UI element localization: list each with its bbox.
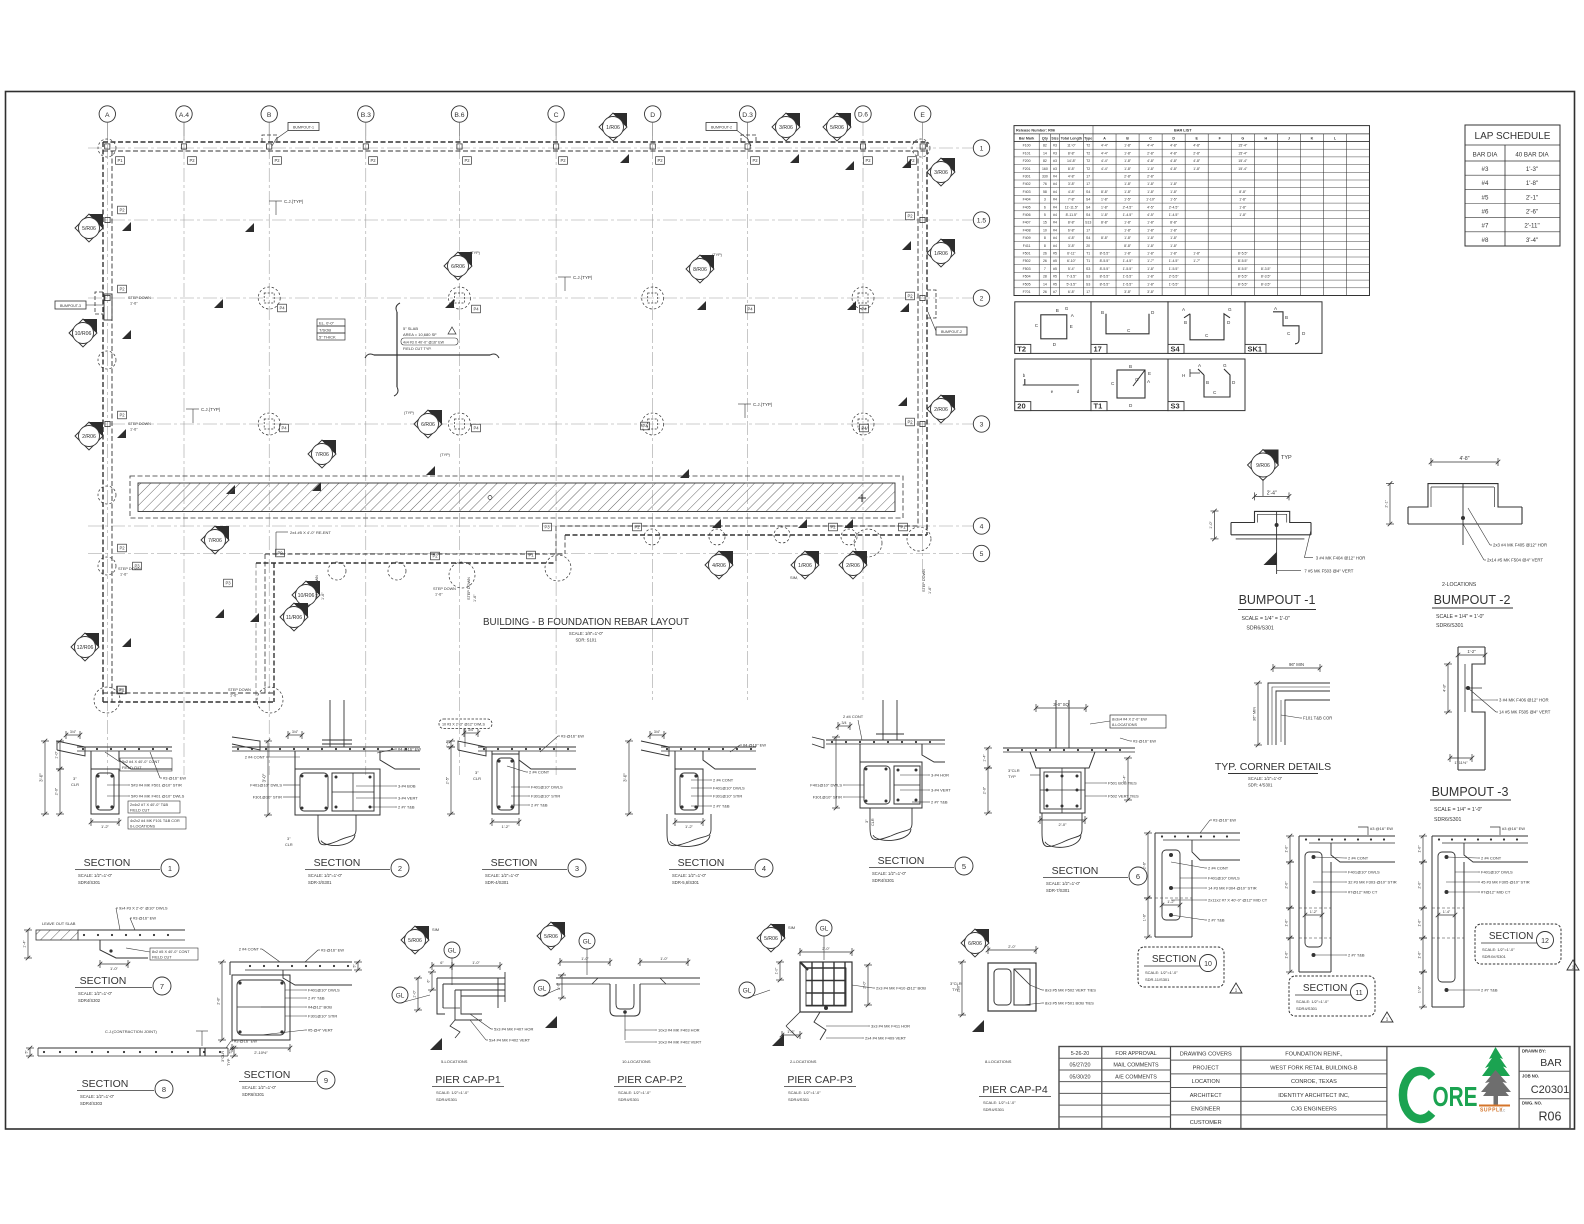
svg-text:8'-8": 8'-8" — [1068, 167, 1076, 171]
bumpout-1 center bar — [1276, 511, 1278, 574]
svg-text:8'-8": 8'-8" — [1068, 151, 1076, 155]
svg-text:36" MIN: 36" MIN — [1252, 707, 1257, 721]
svg-text:F401@10" DWLS: F401@10" DWLS — [531, 785, 563, 790]
svg-text:SCALE: 1/2"=1'-0": SCALE: 1/2"=1'-0" — [872, 871, 907, 876]
svg-text:F505: F505 — [1023, 282, 1031, 286]
svg-text:5#3 #4 MK F501 @10" STIR: 5#3 #4 MK F501 @10" STIR — [131, 783, 182, 788]
svg-text:F301@10" STIR: F301@10" STIR — [253, 795, 282, 800]
section cut flag (900,312) — [900, 303, 909, 312]
svg-text:CLR: CLR — [871, 818, 875, 826]
svg-text:2'-8": 2'-8" — [1124, 175, 1132, 179]
svg-text:5'-3.5": 5'-3.5" — [1066, 282, 1077, 286]
svg-text:#3: #3 — [1053, 151, 1057, 155]
svg-text:P4: P4 — [642, 424, 648, 429]
svg-text:2'-1": 2'-1" — [1385, 499, 1389, 507]
grid line E — [922, 122, 924, 580]
svg-text:1'-0": 1'-0" — [413, 990, 417, 998]
svg-text:G: G — [1135, 377, 1139, 382]
svg-text:#3 @16" EW: #3 @16" EW — [1133, 739, 1156, 744]
svg-text:SDR6/S301: SDR6/S301 — [1436, 623, 1464, 629]
PIER CAP-P1 title — [432, 1074, 504, 1102]
svg-text:2 #7 T&B: 2 #7 T&B — [1348, 953, 1365, 958]
svg-text:B.6: B.6 — [454, 112, 464, 119]
section 8 detail — [25, 1029, 258, 1058]
svg-text:P2: P2 — [274, 158, 280, 163]
svg-text:F401@10" DWLS: F401@10" DWLS — [1481, 870, 1513, 875]
svg-text:P2: P2 — [119, 208, 125, 213]
row bubble 3 — [973, 416, 989, 432]
svg-text:STEP DOWN: STEP DOWN — [922, 569, 926, 592]
svg-text:3 #4 MK F406 @12" HOR: 3 #4 MK F406 @12" HOR — [1499, 698, 1549, 703]
svg-text:ORE: ORE — [1433, 1081, 1478, 1112]
svg-text:B: B — [1206, 380, 1209, 385]
pier label P2 at x=912 — [908, 157, 917, 165]
section marker 5/R06 — [401, 926, 429, 954]
svg-text:330: 330 — [1042, 175, 1048, 179]
svg-text:#3 @16" EW: #3 @16" EW — [321, 948, 344, 953]
section marker 10/R06 — [292, 581, 320, 609]
grid line C — [555, 122, 557, 775]
svg-text:1'-5.5": 1'-5.5" — [1123, 267, 1134, 271]
svg-text:1'-4": 1'-4" — [23, 940, 27, 948]
svg-text:BUMPOUT-2: BUMPOUT-2 — [941, 330, 962, 334]
svg-text:1'-8": 1'-8" — [1170, 190, 1178, 194]
pier label P2 at x=467 — [463, 157, 472, 165]
svg-text:2x4 #4 MK F409 VERT: 2x4 #4 MK F409 VERT — [865, 1036, 907, 1041]
slab area note — [401, 326, 458, 351]
svg-text:12: 12 — [1541, 938, 1549, 945]
edge pier circle (652,537) — [644, 529, 660, 545]
svg-text:8'-8": 8'-8" — [1068, 221, 1076, 225]
section cut flag (445,308) — [445, 299, 454, 308]
svg-text:T2: T2 — [1086, 144, 1090, 148]
svg-text:5: 5 — [980, 551, 984, 558]
svg-text:G: G — [1065, 306, 1069, 311]
svg-text:FIELD CUT: FIELD CUT — [152, 956, 172, 960]
section cut flag (426,475) — [426, 466, 435, 475]
row bubble 5 — [973, 545, 989, 561]
svg-text:5#0 #4 MK F401 @10" DWLS: 5#0 #4 MK F401 @10" DWLS — [131, 794, 185, 799]
svg-text:T2: T2 — [1086, 159, 1090, 163]
svg-text:1'-8": 1'-8" — [1147, 182, 1155, 186]
grid line 3 — [88, 423, 973, 425]
svg-text:B: B — [1101, 310, 1104, 315]
svg-text:2'-6": 2'-6" — [1526, 209, 1538, 216]
svg-text:32 #3 MK F303 @10" STIR: 32 #3 MK F303 @10" STIR — [1348, 880, 1397, 885]
svg-text:BUMPOUT-3: BUMPOUT-3 — [60, 304, 81, 308]
svg-text:1'-8": 1'-8" — [1147, 275, 1155, 279]
svg-text:F401@10" DWLS: F401@10" DWLS — [713, 786, 745, 791]
svg-text:#3 @16" EW: #3 @16" EW — [1213, 818, 1236, 823]
svg-text:3": 3" — [73, 776, 77, 781]
svg-text:P1: P1 — [528, 553, 534, 558]
svg-text:8'-3.5": 8'-3.5" — [1261, 282, 1272, 286]
section 11 cloud title — [1289, 976, 1393, 1022]
svg-text:F301@10" STIR: F301@10" STIR — [308, 1014, 337, 1019]
svg-text:1'-6": 1'-6" — [130, 428, 138, 432]
section cut flag (902,168) — [902, 159, 911, 168]
svg-text:3'-4": 3'-4" — [1526, 237, 1538, 244]
svg-text:LOCATION: LOCATION — [1192, 1079, 1220, 1085]
section cut flag (697,310) — [697, 301, 706, 310]
svg-text:G: G — [1223, 363, 1227, 368]
svg-text:2'-0": 2'-0" — [863, 981, 867, 989]
svg-text:F301: F301 — [1023, 175, 1031, 179]
svg-text:PIER CAP-P4: PIER CAP-P4 — [982, 1084, 1048, 1096]
svg-text:1'-0": 1'-0" — [1418, 845, 1422, 853]
svg-text:3/4": 3/4" — [654, 730, 661, 734]
svg-text:BUILDING - B FOUNDATION REBAR: BUILDING - B FOUNDATION REBAR LAYOUT — [483, 617, 689, 628]
svg-text:17: 17 — [1086, 182, 1090, 186]
section 4 detail — [623, 730, 767, 846]
svg-text:#3 @16" EW: #3 @16" EW — [1370, 826, 1393, 831]
interior pier at (652.7,298) — [642, 287, 664, 309]
svg-text:2'-6": 2'-6" — [1143, 861, 1147, 869]
svg-text:P4: P4 — [747, 307, 753, 312]
svg-text:P9: P9 — [277, 551, 283, 556]
svg-text:4'-8": 4'-8" — [1170, 159, 1178, 163]
foundation outline left edge — [102, 142, 104, 702]
svg-text:1'-4": 1'-4" — [1443, 910, 1451, 914]
grid line 1.5 — [88, 219, 973, 221]
svg-text:SECTION: SECTION — [84, 857, 131, 869]
svg-text:F403: F403 — [1023, 190, 1031, 194]
svg-text:1'-3": 1'-3" — [1526, 166, 1538, 173]
svg-text:D.3: D.3 — [742, 112, 753, 119]
svg-text:3 #4 MK F404 @12" HOR: 3 #4 MK F404 @12" HOR — [1316, 556, 1366, 561]
svg-text:#5: #5 — [1053, 252, 1057, 256]
interior pier at (459.5,424) — [449, 413, 471, 435]
svg-text:Type: Type — [1084, 137, 1092, 141]
svg-text:1'-5.5": 1'-5.5" — [1123, 275, 1134, 279]
hatched thickened slab strip — [130, 476, 903, 518]
svg-text:#4: #4 — [1053, 244, 1057, 248]
section 6 detail — [983, 700, 1167, 847]
svg-text:8'-5.5": 8'-5.5" — [1100, 282, 1111, 286]
PIER CAP-P2 title — [614, 1074, 686, 1102]
svg-text:2'-0": 2'-0" — [55, 787, 59, 795]
grid line A.4 — [183, 122, 185, 775]
svg-text:2 #7 T&B: 2 #7 T&B — [531, 803, 548, 808]
section 6 title — [1043, 865, 1147, 893]
bumpout-2 label right — [928, 312, 967, 335]
section cut flag (712,528) — [712, 519, 721, 528]
svg-text:15'-4": 15'-4" — [1238, 144, 1248, 148]
svg-text:C.J.(TYP): C.J.(TYP) — [284, 199, 304, 204]
svg-text:1'-6": 1'-6" — [787, 1030, 795, 1034]
svg-text:4'-4": 4'-4" — [1101, 144, 1109, 148]
grid line B — [268, 122, 270, 775]
section marker 5/R06 — [537, 922, 565, 950]
section marker 12/R06 — [71, 633, 99, 661]
foundation outline bottom-left edge — [103, 692, 274, 694]
pier label P2 at x=563 — [559, 157, 568, 165]
svg-text:BUMPOUT-2: BUMPOUT-2 — [711, 126, 732, 130]
title block — [1059, 1047, 1570, 1129]
svg-text:GL: GL — [583, 939, 592, 946]
svg-text:2x3 #4 MK F410 @12" BOB: 2x3 #4 MK F410 @12" BOB — [876, 986, 926, 991]
svg-text:#5: #5 — [1053, 267, 1057, 271]
svg-text:1'-8": 1'-8" — [1147, 190, 1155, 194]
svg-text:2 #4 CONT: 2 #4 CONT — [1348, 856, 1369, 861]
grid line A — [106, 122, 108, 775]
revision table — [1101, 1047, 1103, 1129]
svg-text:#8: #8 — [1482, 237, 1489, 244]
svg-text:3"CLR: 3"CLR — [221, 1051, 225, 1062]
svg-text:F501: F501 — [1023, 252, 1031, 256]
svg-text:11: 11 — [1355, 990, 1362, 997]
svg-text:SECTION: SECTION — [1152, 954, 1196, 965]
svg-text:8'-3.5": 8'-3.5" — [1261, 267, 1272, 271]
section 7 detail — [23, 906, 199, 972]
svg-text:14 #3 MK F304 @10" STIR: 14 #3 MK F304 @10" STIR — [1208, 886, 1257, 891]
svg-text:4'-5": 4'-5" — [1147, 205, 1155, 209]
crack control crosshair — [365, 303, 499, 396]
svg-text:1'-8": 1'-8" — [1124, 236, 1132, 240]
section marker 2/R06 — [927, 395, 955, 423]
svg-text:14'-8": 14'-8" — [1067, 159, 1077, 163]
svg-text:T/SOB: T/SOB — [319, 327, 331, 332]
svg-text:2 #4 CONT: 2 #4 CONT — [1208, 866, 1229, 871]
svg-text:1'-8": 1'-8" — [1170, 182, 1178, 186]
svg-text:P2: P2 — [907, 214, 913, 219]
svg-text:SECTION: SECTION — [491, 857, 538, 869]
svg-text:8'-8": 8'-8" — [1124, 244, 1132, 248]
svg-text:LEAVE OUT SLAB: LEAVE OUT SLAB — [42, 921, 76, 926]
svg-text:S4: S4 — [1086, 236, 1090, 240]
row bubble 1.5 — [973, 212, 989, 228]
svg-text:B: B — [1129, 364, 1132, 369]
edge pier circle (270,700) — [257, 687, 283, 713]
svg-text:P3: P3 — [225, 581, 231, 586]
svg-text:#4: #4 — [1053, 228, 1057, 232]
svg-text:3/R06: 3/R06 — [934, 170, 948, 176]
svg-text:DWG. NO.: DWG. NO. — [1522, 1101, 1542, 1106]
svg-text:GL: GL — [538, 986, 547, 993]
svg-text:T1: T1 — [1086, 252, 1090, 256]
svg-text:STEP DOWN: STEP DOWN — [118, 567, 141, 571]
svg-text:4'-4": 4'-4" — [1101, 167, 1109, 171]
svg-text:17: 17 — [1086, 175, 1090, 179]
svg-text:4'-4": 4'-4" — [1101, 159, 1109, 163]
svg-text:GL: GL — [743, 988, 752, 995]
svg-text:1'-4.5": 1'-4.5" — [1169, 213, 1180, 217]
svg-text:#3 @16" EW: #3 @16" EW — [133, 916, 156, 921]
section cut flag (245,232) — [245, 223, 254, 232]
svg-text:PIER CAP-P1: PIER CAP-P1 — [435, 1074, 501, 1086]
svg-text:2'-1": 2'-1" — [1526, 194, 1538, 201]
svg-text:10: 10 — [1043, 228, 1047, 232]
svg-text:7 #5 MK F503 @4" VERT: 7 #5 MK F503 @4" VERT — [1304, 569, 1353, 574]
svg-text:2x14 #5 MK F504 @4" VERT: 2x14 #5 MK F504 @4" VERT — [1487, 558, 1543, 563]
svg-text:3/4: 3/4 — [842, 721, 847, 725]
svg-text:1: 1 — [980, 146, 984, 153]
svg-text:SCALE: 1/2"=1'-0": SCALE: 1/2"=1'-0" — [78, 873, 113, 878]
svg-text:2x3 #4 MK F405 @12" HOR: 2x3 #4 MK F405 @12" HOR — [1493, 543, 1547, 548]
svg-text:F411: F411 — [1023, 244, 1031, 248]
svg-text:BAR: BAR — [1540, 1057, 1562, 1069]
svg-text:76: 76 — [1043, 182, 1047, 186]
svg-text:P4: P4 — [473, 307, 479, 312]
svg-text:SDR6/S301: SDR6/S301 — [1246, 626, 1274, 632]
svg-text:LAP SCHEDULE: LAP SCHEDULE — [1475, 131, 1551, 142]
svg-text:SCALE: 1/2"=1'-0": SCALE: 1/2"=1'-0" — [1296, 999, 1329, 1004]
section 1 title — [75, 857, 179, 885]
svg-text:2 #7 T&B: 2 #7 T&B — [308, 996, 325, 1001]
svg-text:8: 8 — [1044, 236, 1046, 240]
bumpout-3 label left — [55, 301, 103, 309]
svg-text:A: A — [105, 112, 110, 119]
svg-text:3'-0": 3'-0" — [623, 773, 628, 782]
svg-text:1'-8": 1'-8" — [1124, 182, 1132, 186]
svg-text:3'-8": 3'-8" — [1068, 182, 1076, 186]
svg-text:B: B — [1184, 320, 1187, 325]
svg-text:P2: P2 — [119, 413, 125, 418]
svg-text:SDR-5,6/S301: SDR-5,6/S301 — [672, 880, 700, 885]
svg-text:7: 7 — [160, 982, 164, 991]
svg-text:1'-8": 1'-8" — [1124, 167, 1132, 171]
svg-text:P2: P2 — [119, 287, 125, 292]
svg-text:10x3 #4 MK F403 HOR: 10x3 #4 MK F403 HOR — [658, 1028, 700, 1033]
svg-text:1'-8": 1'-8" — [1147, 167, 1155, 171]
svg-text:SK1: SK1 — [1248, 344, 1263, 353]
bend box SK1 — [1245, 302, 1322, 354]
svg-text:2'-5": 2'-5" — [446, 776, 450, 784]
svg-text:PIER CAP-P3: PIER CAP-P3 — [787, 1074, 853, 1086]
edge pier circle (919,539) — [907, 527, 931, 551]
svg-text:3: 3 — [575, 864, 579, 873]
svg-text:6/R06: 6/R06 — [451, 264, 465, 270]
svg-text:SCALE: 1/2"=1'-0": SCALE: 1/2"=1'-0" — [242, 1085, 277, 1090]
svg-text:GL: GL — [448, 948, 457, 955]
svg-text:WEST FORK RETAIL BUILDING-B: WEST FORK RETAIL BUILDING-B — [1270, 1065, 1358, 1071]
pier label P2 at x=373 — [369, 157, 378, 165]
svg-text:8'-5.5": 8'-5.5" — [1100, 267, 1111, 271]
svg-text:6'-8": 6'-8" — [1068, 290, 1076, 294]
svg-text:SCALE: 1/2"=1'-0": SCALE: 1/2"=1'-0" — [485, 873, 520, 878]
svg-text:F301@10" STIR: F301@10" STIR — [813, 795, 842, 800]
svg-text:E: E — [920, 112, 925, 119]
svg-text:7'-3.5": 7'-3.5" — [1066, 275, 1077, 279]
svg-text:FOUNDATION REINF.,: FOUNDATION REINF., — [1285, 1052, 1343, 1058]
section cut flag (215,618) — [215, 609, 224, 618]
svg-text:SECTION: SECTION — [878, 855, 925, 867]
svg-text:5-26-20: 5-26-20 — [1071, 1051, 1090, 1057]
svg-text:S3: S3 — [1086, 282, 1090, 286]
svg-text:CLR: CLR — [285, 843, 293, 847]
svg-text:1'-2": 1'-2" — [1467, 649, 1476, 654]
slab elevation note — [317, 319, 345, 340]
svg-text:SCALE: 1/2"=1'-0": SCALE: 1/2"=1'-0" — [983, 1100, 1016, 1105]
svg-text:1'-4.5": 1'-4.5" — [1123, 213, 1134, 217]
svg-text:SDR-11/S301: SDR-11/S301 — [1145, 977, 1170, 982]
svg-text:1'-6": 1'-6" — [1418, 985, 1422, 993]
svg-text:SECTION: SECTION — [1052, 865, 1099, 877]
svg-text:FIELD CUT: FIELD CUT — [122, 766, 142, 770]
svg-text:1'-8": 1'-8" — [1170, 252, 1178, 256]
svg-text:B: B — [1285, 315, 1288, 320]
svg-text:1'-8": 1'-8" — [1170, 244, 1178, 248]
foundation outline right edge — [917, 151, 919, 526]
svg-text:PROJECT: PROJECT — [1193, 1065, 1220, 1071]
svg-text:F301@10" STIR: F301@10" STIR — [531, 794, 560, 799]
svg-text:26: 26 — [1043, 259, 1047, 263]
svg-text:S4: S4 — [1086, 205, 1090, 209]
svg-text:#4: #4 — [1053, 221, 1057, 225]
corner concrete lines — [1268, 683, 1330, 745]
svg-text:4/R06: 4/R06 — [712, 563, 726, 569]
svg-text:Release Number: R06: Release Number: R06 — [1016, 129, 1055, 133]
svg-text:2'-4": 2'-4" — [1267, 490, 1277, 496]
svg-text:2 #7 T&B: 2 #7 T&B — [713, 804, 730, 809]
svg-text:4x2x2 #4 MK F101 T&B COR: 4x2x2 #4 MK F101 T&B COR — [130, 819, 180, 823]
re-entrant note — [276, 530, 331, 556]
svg-text:1'-8": 1'-8" — [1170, 236, 1178, 240]
svg-text:6/R06: 6/R06 — [421, 422, 435, 428]
svg-text:4'-8": 4'-8" — [1193, 159, 1201, 163]
svg-text:2'-8": 2'-8" — [1193, 151, 1201, 155]
section marker 6/R06 — [444, 252, 472, 280]
column bubble D — [645, 106, 661, 140]
interior pier at (652.7,424) — [642, 413, 664, 435]
svg-text:3/4": 3/4" — [70, 730, 77, 734]
section cut flag (620,163) — [620, 154, 629, 163]
svg-text:FIELD CUT: FIELD CUT — [130, 809, 150, 813]
svg-text:10-LOCATIONS: 10-LOCATIONS — [622, 1059, 651, 1064]
section 10 detail — [1143, 818, 1268, 940]
svg-text:IDENTITY ARCHITECT INC,: IDENTITY ARCHITECT INC, — [1278, 1093, 1350, 1099]
svg-text:2 #7 T&B: 2 #7 T&B — [931, 800, 948, 805]
svg-text:10/R06: 10/R06 — [75, 331, 92, 337]
svg-text:8'-5.5": 8'-5.5" — [1238, 259, 1249, 263]
svg-text:SDR: S101: SDR: S101 — [576, 638, 598, 643]
strip center mark — [488, 494, 866, 502]
svg-text:(TYP): (TYP) — [470, 251, 481, 255]
svg-text:Total Length: Total Length — [1061, 137, 1082, 141]
svg-text:45 #3 MK F305 @10" STIR: 45 #3 MK F305 @10" STIR — [1481, 880, 1530, 885]
svg-text:C20301: C20301 — [1531, 1084, 1570, 1096]
svg-text:3'-0": 3'-0" — [39, 773, 44, 782]
svg-text:SDR-3/S301: SDR-3/S301 — [308, 880, 332, 885]
svg-text:5'-4": 5'-4" — [1068, 267, 1076, 271]
svg-text:SECTION: SECTION — [678, 857, 725, 869]
svg-text:F408: F408 — [1023, 228, 1031, 232]
svg-text:2 #7 T&B: 2 #7 T&B — [1481, 988, 1498, 993]
svg-text:2'-5.5": 2'-5.5" — [1169, 275, 1180, 279]
svg-text:P2: P2 — [907, 294, 913, 299]
svg-text:15'-4": 15'-4" — [1238, 159, 1248, 163]
svg-text:#4: #4 — [1053, 190, 1057, 194]
edge pier circle (107,700) — [94, 687, 120, 713]
foundation outline row4 bottom edge — [560, 525, 918, 527]
svg-text:20: 20 — [1086, 244, 1090, 248]
svg-text:1'-11½": 1'-11½" — [1454, 760, 1468, 765]
svg-text:14: 14 — [1043, 151, 1047, 155]
svg-text:1'-8": 1'-8" — [1124, 228, 1132, 232]
grid line B.6 — [459, 122, 461, 775]
svg-text:10: 10 — [1204, 961, 1212, 968]
svg-text:1'-2": 1'-2" — [101, 824, 110, 829]
svg-text:FOR APPROVAL: FOR APPROVAL — [1115, 1051, 1156, 1057]
PIER CAP-P3 title — [784, 1074, 856, 1102]
svg-text:1'-0": 1'-0" — [660, 957, 668, 961]
svg-text:B: B — [1056, 308, 1059, 313]
edge pier circle (849,537) — [841, 529, 857, 545]
section cut flag (226,494) — [226, 485, 235, 494]
section marker 2/R06 — [75, 422, 103, 450]
svg-text:SDR-7/S301: SDR-7/S301 — [1046, 888, 1070, 893]
svg-text:1'-0": 1'-0" — [581, 957, 589, 961]
